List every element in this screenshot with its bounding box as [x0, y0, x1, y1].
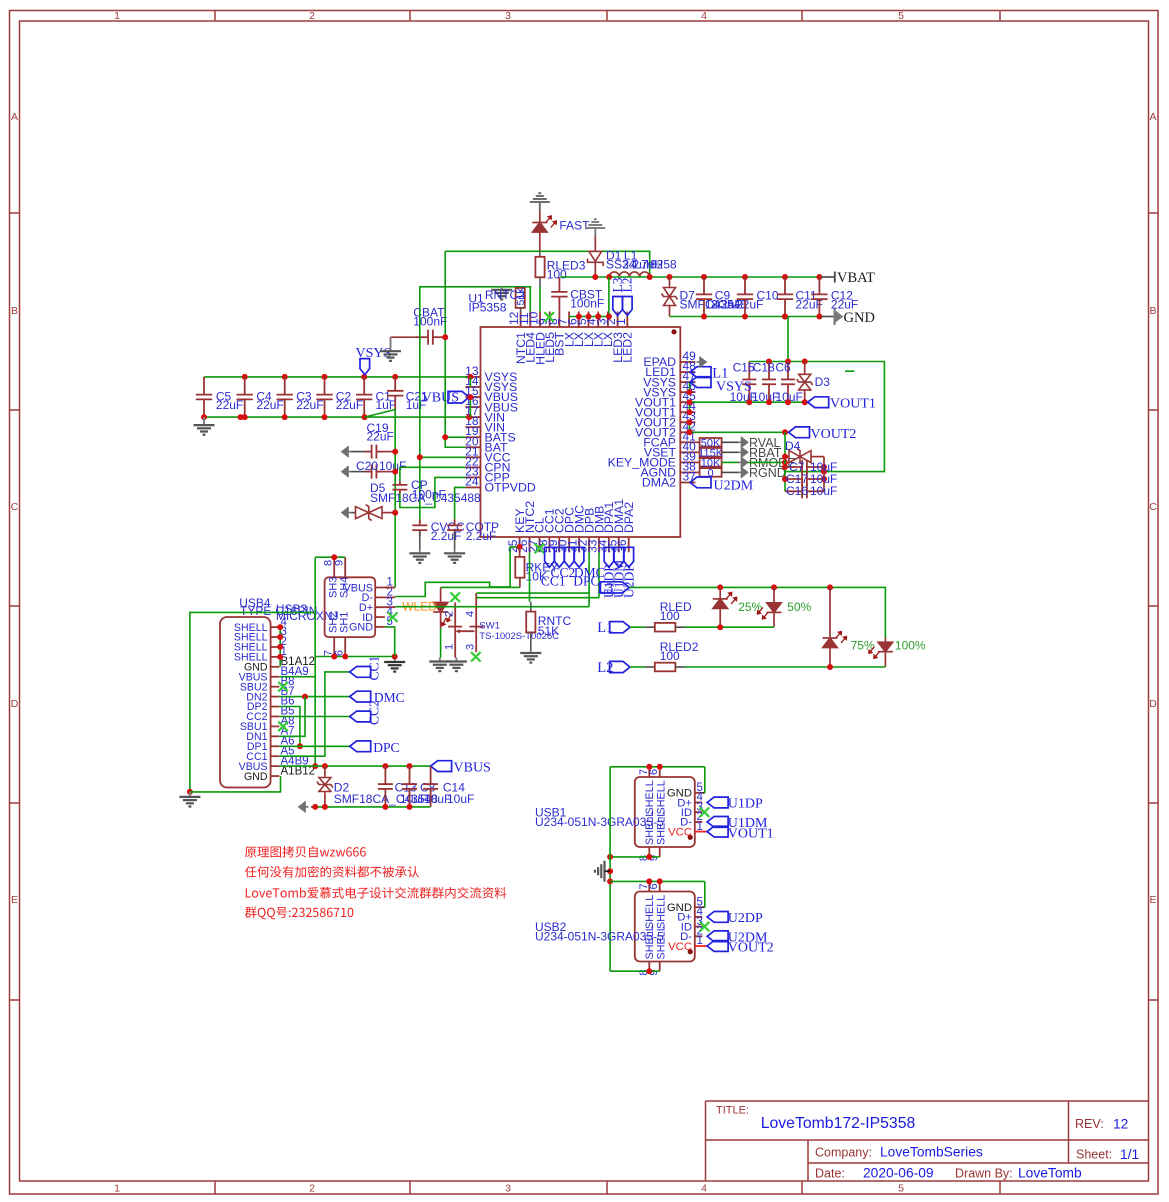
pin 2 SHELL USB4 — [234, 636, 287, 654]
capacitor C15 — [730, 361, 757, 404]
port L3 flag — [597, 580, 629, 596]
svg-text:24: 24 — [465, 474, 479, 488]
port U1DM flag — [611, 547, 626, 598]
svg-text:DPA2: DPA2 — [622, 502, 636, 533]
wire L2 row — [685, 664, 886, 670]
port RMODE — [738, 456, 796, 470]
svg-text:OTPVDD: OTPVDD — [485, 481, 536, 495]
resistor RLED2 100 — [630, 640, 699, 672]
pin 3 ID USB1 — [681, 801, 703, 819]
no-connect X ID USB3 — [388, 612, 398, 622]
pin B8 SBU2 USB4 — [240, 676, 295, 694]
diode D7 — [662, 277, 764, 317]
led 100% — [869, 638, 926, 667]
no-connect X pin27 — [535, 544, 545, 554]
wire BAT vertical — [442, 251, 465, 447]
wire RMODE to C7 — [748, 459, 788, 465]
ground — [454, 550, 456, 553]
shell labels USB1 — [644, 780, 668, 845]
svg-text:GND: GND — [844, 310, 875, 326]
pin 16 VBUS — [465, 394, 518, 414]
pin 3 ID USB2 — [681, 916, 703, 934]
svg-text:10uF: 10uF — [810, 484, 837, 498]
port VBUS flag — [431, 760, 491, 775]
pin 6 shell USB1 — [648, 767, 660, 777]
pin 1 VCC USB1 — [668, 821, 703, 839]
pin 9 SH4 USB3 — [334, 557, 351, 598]
svg-text:D3: D3 — [815, 375, 831, 389]
pin 8 shell USB1 — [638, 847, 650, 861]
pin 17 VIN — [465, 404, 505, 424]
led 75% — [823, 587, 875, 667]
svg-text:100nF: 100nF — [570, 297, 604, 311]
port CC2 flag — [555, 547, 565, 567]
connector USB4 TYPE-C body — [220, 596, 339, 788]
svg-text:C14: C14 — [443, 781, 465, 795]
diode D4 — [782, 432, 827, 491]
capacitor C4 — [237, 377, 284, 417]
svg-text:3: 3 — [465, 644, 477, 650]
svg-text:2: 2 — [444, 611, 456, 617]
svg-text:L2: L2 — [597, 660, 613, 676]
svg-text:37: 37 — [683, 469, 697, 483]
capacitor C11 — [777, 277, 823, 317]
port CC1 flag — [350, 656, 382, 681]
capacitor CBST — [551, 277, 604, 312]
pin 13 VSYS — [465, 364, 517, 384]
svg-text:2.2uF: 2.2uF — [466, 529, 497, 543]
pin 8 BST — [546, 312, 567, 356]
port RGND — [738, 466, 786, 480]
svg-text:51K: 51K — [538, 624, 559, 638]
pin B1A12 GND USB4 — [244, 656, 315, 674]
port VOUT1 — [808, 397, 876, 412]
wire GND mid vertical — [392, 410, 398, 587]
svg-text:LED2: LED2 — [621, 332, 635, 363]
pin 4 ID USB3 — [362, 606, 393, 624]
svg-text:36: 36 — [615, 539, 629, 553]
pin 6 shell USB2 — [648, 881, 660, 891]
pin 42 VOUT2 — [635, 419, 696, 439]
svg-text:CC2: CC2 — [367, 700, 382, 725]
connector USB3 MICROXNJ body — [325, 577, 376, 637]
port RBAT — [738, 446, 782, 460]
port EPAD arrow — [697, 357, 707, 368]
capacitor C2 — [316, 377, 363, 417]
ic U1 IP5358 body — [468, 292, 680, 538]
svg-text:U2DP: U2DP — [728, 911, 763, 926]
svg-text:12: 12 — [1113, 1117, 1128, 1132]
svg-text:VSYS: VSYS — [716, 380, 752, 395]
svg-text:5: 5 — [898, 10, 904, 22]
port L2 flag — [597, 660, 630, 676]
port U1DP flag — [601, 547, 616, 598]
pin 5 GND USB3 — [349, 616, 393, 634]
ground — [501, 287, 503, 290]
pin 39 KEY_MODE — [608, 449, 697, 469]
title block text — [716, 1105, 1139, 1181]
svg-text:1: 1 — [444, 644, 456, 650]
capacitor C17 — [785, 472, 837, 486]
pin 30 DPC — [556, 507, 577, 553]
svg-text:100nF: 100nF — [412, 487, 446, 501]
ground — [585, 219, 605, 237]
svg-text:C16: C16 — [786, 484, 808, 498]
wire SH ground rail — [315, 654, 398, 660]
pin 29 CC2 — [546, 508, 567, 553]
pin B4A9 VBUS USB4 — [239, 666, 309, 684]
pin A7 DN1 USB4 — [246, 726, 294, 744]
wire KEY net — [395, 544, 522, 597]
diode D2 — [317, 766, 474, 807]
svg-text:1: 1 — [114, 1183, 120, 1195]
svg-text:VOUT2: VOUT2 — [728, 941, 774, 956]
svg-text:D4: D4 — [785, 439, 801, 453]
svg-text:VOUT1: VOUT1 — [830, 397, 876, 412]
svg-text:50%: 50% — [787, 600, 811, 614]
svg-text:VOUT2: VOUT2 — [811, 427, 857, 442]
connector USB2 body — [535, 892, 695, 962]
svg-text:E: E — [1149, 894, 1156, 906]
capacitor CVCC — [412, 520, 465, 551]
port DMC flag — [350, 690, 405, 705]
capacitor COTP — [447, 487, 499, 550]
port U1DM flag — [707, 816, 768, 831]
svg-text:Sheet:: Sheet: — [1076, 1148, 1112, 1162]
pin 36 DPA2 — [615, 502, 636, 553]
pin B7 DN2 USB4 — [246, 686, 294, 704]
wire USB ground stub — [605, 870, 611, 872]
capacitor C16 — [785, 484, 837, 498]
capacitor CP — [392, 467, 465, 507]
wire USB2 bottom rail — [610, 968, 660, 974]
wire USB1 top rail — [610, 764, 705, 770]
pin 1 VBUS USB3 — [344, 577, 396, 595]
svg-text:A: A — [11, 111, 18, 123]
wire USB2 top rail — [610, 878, 705, 884]
port VSYS flag — [356, 346, 392, 375]
svg-text:D: D — [1149, 698, 1157, 710]
svg-text:100nF: 100nF — [413, 315, 447, 329]
svg-text:C18: C18 — [753, 361, 775, 375]
pin A1B12 GND USB4 — [244, 765, 315, 783]
capacitor C9 — [696, 277, 731, 317]
led WLED — [402, 587, 451, 657]
wire VBUS pins15-17 join — [467, 394, 473, 417]
svg-text:2: 2 — [309, 1183, 315, 1195]
wire USB1 gnd — [702, 767, 705, 793]
no-connect X SBU1 — [278, 722, 288, 732]
svg-text:1: 1 — [114, 10, 120, 22]
pin 9 shell USB2 — [648, 962, 660, 976]
svg-text:1: 1 — [697, 821, 703, 833]
svg-text:VBUS: VBUS — [454, 760, 491, 775]
pin 18 VIN — [465, 414, 505, 434]
port arrow C19 — [342, 446, 352, 457]
svg-text:SHELL: SHELL — [656, 811, 668, 845]
svg-text:SHELL: SHELL — [644, 895, 656, 929]
pin 3 LX — [594, 312, 615, 348]
svg-text:TITLE:: TITLE: — [716, 1105, 749, 1117]
red note text — [245, 846, 507, 919]
pin 35 DMA1 — [605, 499, 626, 553]
pin 5 GND USB2 — [667, 896, 703, 914]
pin A4B9 VBUS USB4 — [239, 755, 309, 773]
pin A8 SBU1 USB4 — [240, 716, 295, 734]
svg-text:U2DM: U2DM — [714, 479, 754, 494]
wire DMB net — [476, 552, 599, 597]
svg-text:L2: L2 — [620, 278, 635, 293]
svg-text:6: 6 — [648, 769, 660, 775]
capacitor C7 — [785, 460, 837, 474]
pin 9 shell USB1 — [648, 847, 660, 861]
wire CC1 net — [279, 672, 349, 756]
pin 4 SHELL USB4 — [234, 616, 288, 634]
svg-text:VBUS: VBUS — [422, 391, 459, 406]
wire VOUT2 — [687, 419, 789, 435]
node VSYS flag pins47-46 — [687, 382, 693, 395]
led 25% — [713, 587, 763, 627]
wire USB1 bottom rail — [607, 854, 660, 860]
svg-text:100: 100 — [547, 268, 567, 282]
pin 12 NTC1 — [507, 311, 528, 364]
pin 2 D- USB3 — [362, 587, 396, 605]
pin 1 VCC USB2 — [668, 935, 703, 953]
pin 8 SH3 USB3 — [323, 557, 340, 598]
resistor RMODE 10K — [695, 457, 739, 469]
svg-text:CC1: CC1 — [367, 656, 382, 681]
port U1DP flag — [707, 797, 763, 812]
wire SHELL join — [277, 624, 283, 667]
svg-text:VCC: VCC — [668, 826, 692, 838]
pin 24 OTPVDD — [465, 474, 536, 494]
flag labels CC2 DMC CC1 DPC — [541, 565, 605, 588]
wire BAT top — [445, 251, 650, 277]
pin B6 DP2 USB4 — [247, 696, 295, 714]
resistor RGND 0 — [695, 467, 739, 479]
port DMC flag — [574, 547, 584, 567]
pin 23 CPP — [465, 464, 510, 484]
pin 31 DMC — [566, 505, 587, 553]
ground — [419, 550, 421, 553]
svg-text:LoveTomb172-IP5358: LoveTomb172-IP5358 — [761, 1115, 916, 1132]
port GND — [821, 309, 875, 327]
svg-text:GND: GND — [349, 622, 373, 634]
svg-text:REV:: REV: — [1075, 1117, 1104, 1131]
pin 7 LX — [556, 312, 577, 348]
port U2DP flag — [621, 547, 636, 598]
svg-text:SHELL: SHELL — [644, 811, 656, 845]
shell labels USB2 — [644, 895, 668, 960]
svg-text:4: 4 — [465, 611, 477, 617]
svg-text:C8: C8 — [420, 781, 436, 795]
pin 27 CL — [526, 517, 547, 553]
svg-text:1/1: 1/1 — [1120, 1147, 1139, 1162]
resistor RKEY 10K — [515, 547, 558, 588]
svg-text:C13: C13 — [395, 781, 417, 795]
svg-text:C6: C6 — [775, 361, 791, 375]
ground — [530, 650, 532, 653]
svg-text:4: 4 — [701, 1183, 707, 1195]
svg-text:2020-06-09: 2020-06-09 — [863, 1166, 934, 1181]
led 50% — [757, 587, 811, 627]
pin 14 VSYS — [465, 374, 517, 394]
pin 2 D- USB2 — [680, 926, 703, 944]
pin 5 LX — [575, 312, 596, 348]
wire USB2 gnd — [702, 881, 705, 907]
pin 7 shell USB1 — [638, 767, 650, 777]
svg-text:FAST: FAST — [559, 219, 590, 233]
port U2DM flag — [707, 930, 768, 945]
resistor RLED 100 — [630, 600, 692, 632]
capacitor C13 — [378, 766, 417, 807]
pin 40 VSET — [644, 439, 696, 459]
wire GND left rail — [201, 414, 472, 420]
ground — [455, 658, 457, 662]
port DPC flag — [564, 547, 574, 567]
resistor RLED3 — [535, 251, 585, 287]
pin 21 VCC — [465, 444, 510, 464]
pin 15 VBUS — [465, 384, 518, 404]
capacitor C8 — [402, 766, 436, 807]
svg-text:LoveTombSeries: LoveTombSeries — [880, 1145, 983, 1160]
capacitor C3 — [277, 377, 324, 417]
wire CC2 net — [279, 716, 349, 718]
pin 32 DPB — [576, 508, 597, 553]
capacitor C1 — [356, 377, 396, 417]
svg-text:CC1: CC1 — [541, 573, 566, 588]
pin 37 DMA2 — [642, 469, 696, 489]
svg-text:C20: C20 — [356, 459, 378, 473]
diode D5 — [351, 481, 481, 520]
pin 22 CPN — [465, 454, 510, 474]
ground — [189, 792, 191, 797]
wire L3 led rail — [629, 584, 885, 638]
resistor RNTC 51K — [526, 552, 571, 650]
pin 6 SH1 USB3 — [334, 612, 351, 657]
wire GND rail — [670, 314, 823, 320]
svg-text:C: C — [11, 501, 19, 513]
wire USB gnd spine — [607, 767, 613, 971]
port arrow GND D2 — [299, 801, 309, 812]
pin 7 shell USB2 — [638, 881, 650, 891]
svg-text:U1DP: U1DP — [728, 797, 763, 812]
svg-text:C9: C9 — [715, 289, 731, 303]
svg-text:3: 3 — [505, 1183, 511, 1195]
wire VCC net — [417, 287, 531, 520]
port VOUT1 flag USB1 — [702, 826, 773, 841]
pin 20 BAT — [465, 434, 508, 454]
pin 43 VOUT2 — [635, 409, 696, 429]
port VOUT2 — [789, 427, 857, 442]
pin 10 HLED — [527, 311, 548, 364]
wire GND loop left — [187, 612, 315, 795]
wire LX net — [569, 277, 612, 320]
svg-text:SHELL: SHELL — [656, 925, 668, 959]
pin 1 LED2 — [614, 312, 635, 363]
wire DPC net — [279, 707, 349, 750]
svg-text:SHELL: SHELL — [644, 925, 656, 959]
svg-text:DPC: DPC — [373, 740, 399, 755]
port arrow C20 — [342, 466, 352, 477]
svg-text:SHELL: SHELL — [656, 895, 668, 929]
svg-text:9: 9 — [334, 560, 346, 566]
svg-text:L1: L1 — [597, 620, 613, 636]
pin 4 D+ USB1 — [677, 792, 703, 810]
port U2DP flag — [707, 911, 763, 926]
svg-text:VBAT: VBAT — [837, 270, 875, 286]
capacitor C6 — [775, 361, 802, 404]
ground — [595, 861, 605, 882]
diode D3 — [797, 362, 831, 403]
no-connect X SBU2 — [278, 682, 288, 692]
pin 6 LX — [565, 312, 586, 348]
svg-text:E: E — [11, 894, 18, 906]
ground — [203, 417, 205, 425]
port VBUS pin15 — [422, 391, 469, 406]
wire L1 row — [685, 624, 774, 630]
port L1 pin48 — [690, 366, 728, 382]
capacitor CBAT — [391, 306, 448, 345]
svg-text:RGND: RGND — [749, 466, 786, 480]
svg-text:51K: 51K — [515, 287, 527, 306]
wire VBUS row — [279, 763, 430, 769]
svg-text:B: B — [11, 305, 18, 317]
pin 26 NTC2 — [516, 501, 537, 553]
pin 9 LED5 — [536, 312, 557, 363]
connector USB1 body — [535, 777, 695, 847]
svg-text:100: 100 — [660, 649, 680, 663]
pin 33 DMB — [585, 506, 606, 553]
pin 3 SHELL USB4 — [234, 626, 287, 644]
capacitor C18 — [752, 361, 779, 404]
capacitor C14 — [423, 766, 465, 807]
no-connect X ID USB1 — [700, 807, 710, 817]
svg-text:SHELL: SHELL — [656, 780, 668, 814]
port CC1 flag — [545, 547, 555, 567]
svg-text:L3: L3 — [597, 580, 613, 596]
wire VBUS vertical — [279, 557, 318, 769]
led FAST — [532, 211, 590, 251]
inductor L1 — [609, 249, 677, 278]
port DPC flag — [350, 740, 400, 755]
wire SH3 SH4 top — [315, 554, 345, 560]
port VOUT2 flag USB2 — [702, 941, 773, 956]
port VSYS pin47 — [690, 377, 752, 395]
svg-text:A: A — [1149, 111, 1156, 123]
port arrow D5 — [342, 507, 352, 518]
svg-text:VOUT1: VOUT1 — [728, 827, 774, 842]
wire HLED — [539, 287, 541, 312]
resistor RVAL 50K — [695, 437, 739, 449]
no-connect X ID USB2 — [700, 922, 710, 932]
svg-text:SW1: SW1 — [479, 620, 500, 631]
svg-text:C15: C15 — [733, 361, 755, 375]
no-connect X SW1 pin3 — [471, 652, 481, 662]
pin 46 VSYS — [643, 379, 696, 399]
svg-text:LoveTomb: LoveTomb — [1018, 1166, 1082, 1181]
pin 28 CC1 — [536, 508, 557, 553]
svg-text:DMA2: DMA2 — [642, 476, 676, 490]
svg-text:3: 3 — [505, 10, 511, 22]
svg-text:A1B12: A1B12 — [281, 765, 316, 777]
svg-text:SHELL: SHELL — [644, 780, 656, 814]
svg-text:C: C — [1149, 501, 1157, 513]
svg-text:Date:: Date: — [815, 1167, 845, 1181]
wire VBUS pin1 drop — [385, 586, 395, 589]
pin 47 VSYS — [643, 369, 696, 389]
pin 7 SH2 USB3 — [323, 612, 340, 657]
